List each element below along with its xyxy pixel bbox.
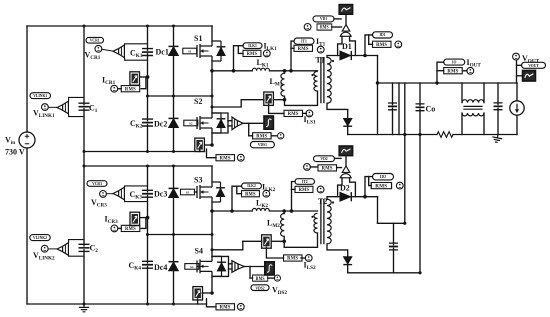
svg-text:S2: S2	[189, 122, 193, 126]
svg-text:VOUT: VOUT	[522, 54, 540, 65]
svg-text:ID2: ID2	[380, 175, 386, 179]
svg-text:VCR3: VCR3	[91, 198, 107, 209]
svg-text:S3: S3	[186, 191, 190, 195]
svg-text:CK1: CK1	[130, 48, 143, 59]
svg-text:ILK2: ILK2	[262, 182, 276, 193]
svg-text:VDS2: VDS2	[255, 286, 264, 290]
svg-text:S4: S4	[190, 265, 194, 269]
svg-text:Co: Co	[426, 105, 436, 114]
svg-text:Dc4: Dc4	[154, 263, 167, 272]
svg-text:VLINK1: VLINK1	[33, 94, 47, 98]
svg-text:CK2: CK2	[130, 119, 143, 130]
svg-text:ID1: ID1	[380, 33, 386, 37]
svg-text:CK3: CK3	[130, 190, 143, 201]
svg-text:730 V: 730 V	[5, 148, 25, 157]
svg-text:IT1: IT1	[316, 37, 326, 48]
svg-text:VCR1: VCR1	[90, 39, 100, 43]
svg-text:ILK1: ILK1	[264, 41, 278, 52]
svg-text:VCR3: VCR3	[92, 182, 102, 186]
svg-text:VDS2: VDS2	[272, 285, 287, 296]
svg-text:D2: D2	[340, 184, 350, 193]
svg-text:VLINK2: VLINK2	[33, 236, 47, 240]
svg-text:ICR1: ICR1	[102, 75, 116, 86]
svg-text:IOUT: IOUT	[467, 58, 482, 69]
svg-text:D1: D1	[342, 42, 352, 51]
svg-text:S4: S4	[195, 247, 203, 256]
svg-text:S2: S2	[194, 97, 202, 106]
svg-text:S1: S1	[194, 34, 202, 43]
svg-text:C1: C1	[89, 104, 98, 115]
svg-text:ICR3: ICR3	[105, 214, 119, 225]
svg-text:LM1: LM1	[270, 77, 283, 88]
svg-text:ILK2: ILK2	[247, 184, 256, 188]
svg-text:CK4: CK4	[129, 261, 142, 272]
svg-text:VD1: VD1	[320, 17, 327, 21]
svg-text:LM2: LM2	[267, 219, 280, 230]
svg-text:ILK1: ILK1	[248, 44, 257, 48]
svg-text:IO: IO	[452, 61, 456, 65]
svg-text:Dc3: Dc3	[154, 190, 167, 199]
svg-text:VD2: VD2	[320, 157, 327, 161]
svg-text:Vin: Vin	[5, 136, 15, 147]
svg-text:VDS1: VDS1	[258, 143, 267, 147]
svg-text:LK2: LK2	[256, 199, 268, 210]
svg-text:Dc1: Dc1	[156, 48, 169, 57]
svg-text:Dc2: Dc2	[154, 120, 167, 129]
svg-text:LK1: LK1	[257, 58, 269, 69]
svg-text:C2: C2	[90, 244, 99, 255]
svg-text:IT2: IT2	[302, 180, 308, 184]
svg-text:T1: T1	[316, 56, 325, 65]
svg-text:T2: T2	[318, 197, 327, 206]
svg-text:S3: S3	[194, 176, 202, 185]
svg-text:S1: S1	[188, 50, 192, 54]
svg-text:ILS2: ILS2	[304, 261, 316, 272]
svg-text:IT1: IT1	[301, 40, 307, 44]
